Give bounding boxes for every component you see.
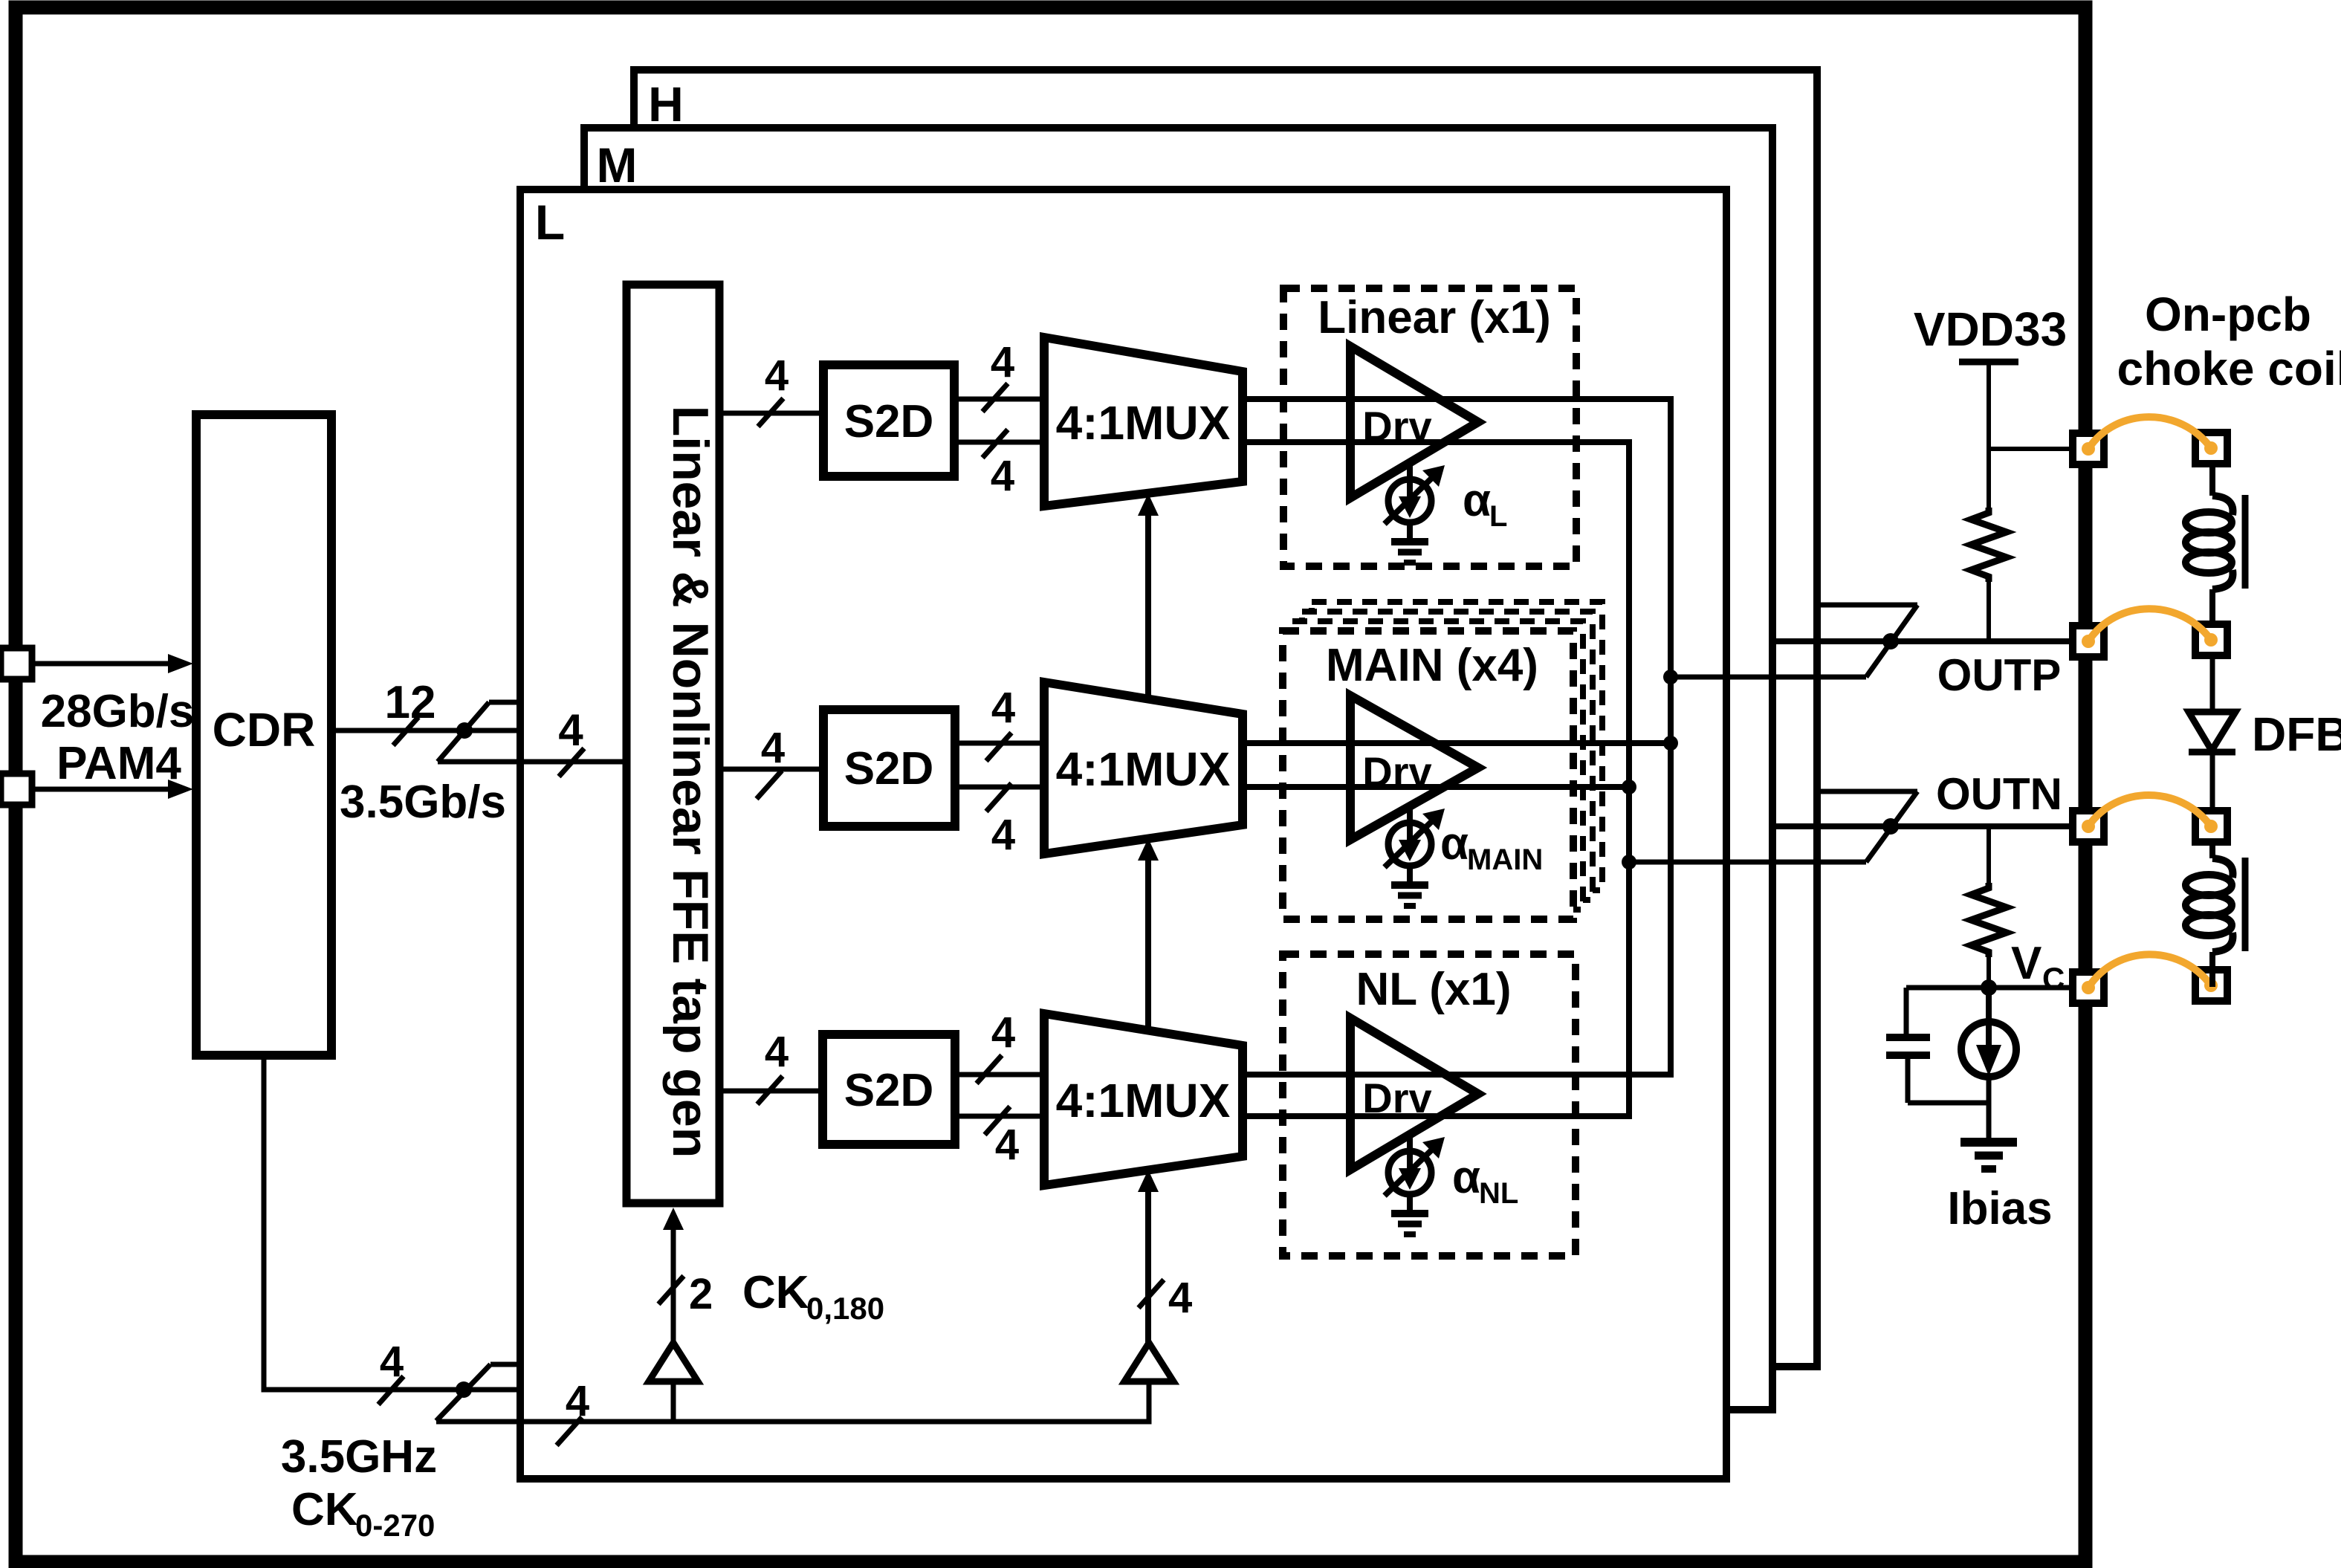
label 4 bottom NL [995,1121,1019,1169]
label 4 input NL [765,1028,789,1076]
pad VC [2073,972,2104,1003]
label OUTN [1936,769,2062,819]
svg-text:choke coil: choke coil [2117,342,2341,395]
svg-text:Ibias: Ibias [1947,1183,2052,1234]
wire R1 to OUTP [1987,582,1991,641]
bus split diagonal [438,702,489,762]
VDD33 supply bar [1959,359,2018,366]
label 28Gb/s [41,686,195,737]
wire B1 riser [671,1381,676,1422]
bus slash clock rail [557,1417,582,1445]
svg-text:4: 4 [991,684,1015,732]
node VC [1981,979,1997,996]
OUTP combiner top rail [1817,603,1917,608]
svg-text:L: L [1489,500,1507,533]
label On-pcb [2145,288,2311,341]
block FFE tap gen [626,285,719,1203]
dashed box MAIN [1283,631,1573,919]
label S2D NL [844,1065,934,1116]
wire CDR 12-bit bus [331,728,520,733]
clock split top rail [490,1362,520,1367]
label 4 clock [380,1338,404,1386]
svg-text:OUTP: OUTP [1937,650,2062,700]
resistor R2 [1971,883,2007,957]
wire FFE to S2D NL [719,1089,823,1094]
label 4 bottom L1 [991,452,1014,500]
label 4:1MUX NL [1056,1074,1231,1127]
bond wire VDD33 [2082,417,2218,456]
mux 4:1MUX MAIN [1044,682,1243,854]
label 12 [385,677,436,728]
svg-text:V: V [2011,938,2042,989]
svg-text:2: 2 [689,1270,713,1318]
bus slash clock [378,1376,404,1405]
wire input arrow 2 [32,780,193,799]
svg-text:MAIN: MAIN [1467,843,1543,876]
svg-text:H: H [648,77,684,132]
diode DFB [2189,712,2235,752]
clock arrow into MUX NL [1138,1170,1159,1343]
label 3.5Gb/s [340,777,506,828]
node OUTN merge [1882,818,1899,835]
label CK 0-270 [291,1484,435,1543]
ground MAIN [1391,866,1428,906]
wire clock mid [464,1387,520,1393]
svg-text:M: M [597,137,638,192]
label H [648,77,684,132]
node OUTN-MAIN [1622,780,1636,794]
bus slash top NL [977,1055,1002,1083]
label VDD33 [1914,302,2067,356]
bus slash input MAIN [757,771,782,799]
clock arrow into MUX L1 [1138,493,1159,699]
svg-text:4: 4 [765,1028,789,1076]
node OUTN-rail [1622,855,1636,869]
label DFB [2252,707,2341,761]
inductor choke coil 2 [2186,842,2245,987]
wire CDR clock stub [264,1055,464,1390]
label CK 0,180 [742,1267,884,1326]
label 4 bottom MAIN [991,811,1015,859]
svg-text:4: 4 [558,705,583,755]
svg-text:VDD33: VDD33 [1914,302,2067,356]
pad pcb choke mid [2195,624,2227,655]
wire VDD to pad [1989,447,2073,451]
dashed box NL [1283,954,1576,1256]
wire cap bottom [1905,1055,1911,1103]
OUTP combiner bottom rail [1671,675,1866,680]
svg-text:α: α [1463,475,1491,526]
bus slash 4 (FFE input) [559,748,584,777]
svg-text:Linear (x1): Linear (x1) [1318,292,1551,343]
bond wire OUTP [2082,609,2218,648]
label PAM4 [56,738,181,789]
wire MUX-out bottom MAIN [1243,784,1629,790]
ground NL [1391,1194,1428,1234]
mux 4:1MUX L1 [1044,337,1243,506]
wire FFE input [438,759,626,765]
current source alpha MAIN [1385,806,1445,867]
node OUTP-L1 [1663,670,1678,684]
clock buffer B1 [649,1343,698,1381]
label Drv L1 [1362,403,1431,450]
svg-text:12: 12 [385,677,436,728]
wire DFB to pad [2210,752,2215,811]
bond wire VC [2082,954,2218,994]
label S2D MAIN [844,743,934,794]
label M [597,137,638,192]
OUTP combiner diagonal [1866,605,1917,677]
pad IN1 [1,648,32,679]
pad pcb pcb VC [2195,970,2227,1001]
lane box L [520,189,1726,1479]
label Linear & Nonlinear FFE tap gen [662,406,719,1159]
driver Drv NL [1350,1018,1478,1170]
wire FFE to S2D L1 [719,411,823,416]
dashed box L1 [1283,288,1576,566]
svg-text:DFB: DFB [2252,707,2341,761]
bond wire OUTN [2082,795,2218,833]
wire cap to source bottom [1908,1101,1989,1106]
lane box H [634,70,1817,1367]
svg-text:CK: CK [742,1267,809,1318]
bus slash clock 4 (mux) [1139,1274,1192,1322]
wire MUX-out top NL [1243,1072,1671,1078]
svg-text:S2D: S2D [844,396,934,447]
label alpha NL [1452,1152,1518,1210]
svg-text:S2D: S2D [844,743,934,794]
svg-text:On-pcb: On-pcb [2145,288,2311,341]
svg-text:4: 4 [995,1121,1019,1169]
svg-text:0-270: 0-270 [355,1508,435,1543]
label CDR [213,703,316,757]
svg-text:α: α [1452,1152,1480,1203]
wire MUX-out top L1 [1243,396,1671,402]
label Drv NL [1362,1075,1431,1121]
wire OUTP [1772,638,2073,644]
label Ibias [1947,1183,2052,1234]
bus slash input L1 [758,398,783,427]
svg-text:NL: NL [1479,1177,1518,1210]
wire MUX-out top MAIN [1243,740,1671,746]
driver Drv L1 [1350,346,1478,498]
label 4 input MAIN [761,724,785,772]
label 2 [689,1270,713,1318]
wire S2D-MUX top MAIN [955,741,1044,746]
OUTN combiner top rail [1817,789,1917,794]
svg-text:4: 4 [566,1377,589,1425]
bus slash input NL [757,1076,783,1104]
resistor R1 [1971,508,2007,582]
wire S2D-MUX bottom NL [955,1114,1044,1119]
bus split top rail [489,700,520,705]
svg-text:4:1MUX: 4:1MUX [1056,396,1231,450]
OUTN combiner bottom rail [1629,860,1866,865]
ground L1 [1391,522,1428,563]
wire S2D-MUX bottom L1 [954,440,1044,445]
label alpha L [1463,475,1507,533]
wire VDD down [1987,449,1991,508]
clock split diagonal [436,1364,490,1421]
svg-text:4: 4 [991,811,1015,859]
capacitor C1 bottom plate [1886,1052,1930,1059]
wire R2 to VC [1987,957,1991,988]
OUTN combiner diagonal [1866,791,1917,862]
label 4 top MAIN [991,684,1015,732]
bus slash bottom NL [985,1107,1010,1135]
block S2D MAIN [823,710,955,826]
pad OUTP [2073,626,2104,657]
label 4 top NL [991,1008,1015,1057]
svg-text:C: C [2042,961,2065,996]
clock arrow into FFE [663,1208,684,1343]
label 4 (FFE input) [558,705,583,755]
node bus split [456,722,473,739]
svg-text:NL (x1): NL (x1) [1356,964,1511,1015]
wire VC node [1906,985,2073,991]
svg-text:3.5GHz: 3.5GHz [281,1431,437,1483]
wire S2D-MUX top NL [955,1072,1044,1078]
ground Ibias [1960,1142,2017,1169]
svg-text:OUTN: OUTN [1936,769,2062,819]
capacitor C1 top plate [1886,1034,1930,1041]
wire MUX-out bottom NL [1243,1113,1629,1119]
wire clock rail [436,1381,1149,1422]
wire OUTN [1772,823,2073,829]
label 3.5GHz [281,1431,437,1483]
bus slash clock 2 [658,1276,684,1304]
wire cap top [1904,988,1909,1037]
wire MUX-out bottom L1 [1243,439,1629,445]
svg-text:S2D: S2D [844,1065,934,1116]
node OUTP-MAIN [1663,736,1678,751]
label MAIN (x4) [1326,640,1538,691]
label S2D L1 [844,396,934,447]
mux 4:1MUX NL [1044,1014,1243,1185]
svg-text:PAM4: PAM4 [56,738,181,789]
bus slash top L1 [982,383,1008,412]
svg-text:3.5Gb/s: 3.5Gb/s [340,777,506,828]
svg-text:4: 4 [991,452,1014,500]
driver Drv MAIN [1350,696,1478,840]
wire pad to DFB [2210,655,2215,712]
pad OUTN [2073,811,2104,842]
label 4:1MUX MAIN [1056,742,1231,796]
wire OUTN vertical bus [1243,442,1629,1116]
label Linear (x1) [1318,292,1551,343]
label 4 clock rail [566,1377,589,1425]
label Drv MAIN [1362,748,1431,795]
pad pcb choke bottom [2195,811,2227,842]
block S2D NL [823,1034,955,1144]
wire VDD stem [1987,362,1991,449]
svg-text:CDR: CDR [213,703,316,757]
block CDR [196,415,331,1055]
label 4 input L1 [765,351,789,400]
label NL (x1) [1356,964,1511,1015]
block S2D L1 [823,365,954,476]
svg-text:MAIN (x4): MAIN (x4) [1326,640,1538,691]
label L [535,195,565,250]
svg-text:α: α [1440,818,1469,869]
wire S2D-MUX bottom MAIN [955,785,1044,790]
svg-text:4:1MUX: 4:1MUX [1056,1074,1231,1127]
svg-text:Linear & Nonlinear FFE tap gen: Linear & Nonlinear FFE tap gen [662,406,719,1159]
label 4:1MUX L1 [1056,396,1231,450]
svg-text:4: 4 [1168,1274,1192,1322]
bus slash bottom MAIN [986,783,1011,811]
node clock split [456,1381,472,1398]
label alpha MAIN [1440,818,1543,876]
svg-text:4: 4 [991,338,1014,386]
svg-text:Drv: Drv [1362,748,1431,795]
pad pcb choke top [2195,433,2227,464]
bus slash 12 [393,717,418,745]
clock arrow into MUX MAIN [1138,838,1159,1030]
label VC [2011,938,2065,996]
svg-text:4:1MUX: 4:1MUX [1056,742,1231,796]
pad IN2 [1,774,32,805]
current source alpha NL [1385,1134,1445,1196]
label OUTP [1937,650,2062,700]
svg-text:28Gb/s: 28Gb/s [41,686,195,737]
svg-text:4: 4 [761,724,785,772]
clock buffer B2 [1124,1343,1173,1381]
svg-text:L: L [535,195,565,250]
dashed stack MAIN offset 2 [1302,612,1593,900]
current source alpha L [1385,462,1445,524]
wire input arrow 1 [32,654,193,673]
svg-text:4: 4 [991,1008,1015,1057]
wire OUTP vertical bus [1243,399,1671,1075]
wire Ibias to ground [1987,1077,1992,1142]
lane box M [584,128,1772,1410]
label choke coil [2117,342,2341,395]
wire OUTN down [1987,826,1991,883]
pad VDD33 [2073,433,2104,464]
bus slash top MAIN [986,733,1011,761]
svg-text:0,180: 0,180 [806,1291,884,1326]
dashed stack MAIN offset 1 [1292,621,1583,910]
svg-text:CK: CK [291,1484,358,1535]
current source Ibias [1961,988,2016,1077]
bus slash bottom L1 [982,430,1008,458]
node OUTP merge [1882,633,1899,649]
dashed stack MAIN offset 3 [1312,602,1602,890]
inductor choke coil 1 [2186,464,2245,624]
label 4 top L1 [991,338,1014,386]
wire FFE to S2D MAIN [719,767,823,772]
wire S2D-MUX top L1 [954,397,1044,402]
svg-text:4: 4 [765,351,789,400]
